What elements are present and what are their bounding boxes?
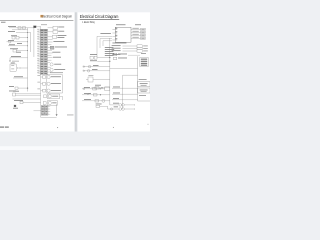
svg-text:1. Electric Wiring: 1. Electric Wiring [82, 20, 95, 24]
svg-text:Electrical Circuit Diagram: Electrical Circuit Diagram [80, 14, 119, 19]
svg-text:Electrical Circuit Diagram: Electrical Circuit Diagram [42, 15, 73, 19]
